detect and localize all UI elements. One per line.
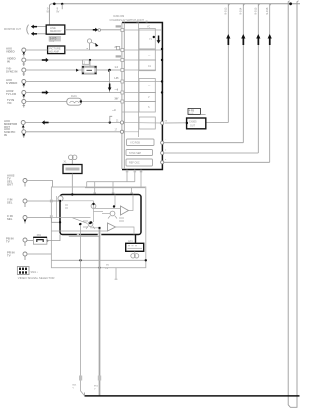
- wire: drop to selector 1: [94, 182, 97, 195]
- svg-text:CXA2061S AV SWITCH CONT: CXA2061S AV SWITCH CONT: [110, 19, 145, 22]
- svg-text:SYNC SEP: SYNC SEP: [129, 152, 141, 155]
- svg-text:TV: TV: [6, 239, 10, 243]
- wire: IC to vertical 4: [161, 159, 270, 164]
- box U902 line memory: [46, 25, 65, 34]
- svg-text:X1: X1: [64, 161, 68, 164]
- IC internal rows: [122, 30, 162, 132]
- wire J9 into selector: [27, 181, 53, 188]
- svg-text:L45: L45: [115, 77, 120, 80]
- svg-text:FB1: FB1: [37, 235, 42, 237]
- IC internal bus: [122, 23, 139, 170]
- IC right pin circle: [161, 120, 168, 124]
- connector J7 aux out: [4, 119, 25, 130]
- wire J1 to IC: [26, 49, 122, 51]
- svg-text:SEL: SEL: [7, 200, 13, 204]
- IC dark arrow down: [157, 36, 161, 44]
- wire J2 to IC with arrow: [26, 58, 122, 62]
- wire: IC right to B9 to vertical 1: [165, 122, 228, 125]
- svg-text:S VIDEO: S VIDEO: [6, 81, 18, 85]
- box B7: [33, 235, 48, 244]
- svg-text:Y1: Y1: [149, 39, 153, 41]
- transistor Q301: [87, 39, 99, 50]
- op-amp U1: [121, 206, 129, 215]
- svg-text:e: e: [165, 150, 167, 152]
- wire: bottom drop thin: [73, 223, 85, 396]
- wire loop to B6: [135, 235, 137, 244]
- wire: drop to selector 2: [112, 182, 115, 195]
- transistor Q2: [58, 196, 63, 201]
- bus drop wire 4: [265, 4, 271, 163]
- junction node on bus: [53, 3, 63, 6]
- svg-text:e: e: [165, 159, 167, 161]
- label plate under U902: [49, 36, 61, 43]
- right edge return wire outer: [288, 1, 298, 408]
- transistor Q5: [110, 211, 115, 216]
- connector J13: [7, 250, 27, 260]
- wire: IC to vertical 2: [161, 139, 244, 144]
- wire J5 to IC with arrow: [26, 90, 122, 94]
- connector J12: [6, 236, 27, 246]
- svg-text:IN: IN: [4, 133, 7, 137]
- wire: U902 to IC301: [65, 29, 122, 31]
- connector J6: [7, 98, 26, 108]
- svg-text:⇦n: ⇦n: [105, 267, 109, 270]
- connector B8 service plug: [17, 267, 37, 275]
- IC bottom wide block 3: [126, 159, 153, 166]
- svg-text:VIDEO SIGNAL SELECTOR: VIDEO SIGNAL SELECTOR: [18, 276, 55, 280]
- box B6 output driver: [126, 241, 144, 251]
- svg-text:DL01: DL01: [71, 95, 77, 98]
- IC bottom wide block 2: [126, 150, 153, 156]
- svg-text:TV LCD: TV LCD: [6, 92, 16, 96]
- wire J4 to IC: [26, 81, 122, 83]
- box comb filter: [48, 46, 65, 54]
- wire J10 to loop: [27, 200, 60, 202]
- bus drop wire 1: [224, 4, 230, 123]
- svg-text:~: ~: [165, 139, 167, 141]
- connector J8: [4, 127, 26, 138]
- IC301 block: [110, 15, 163, 169]
- up arrow on drop 1: [226, 34, 230, 45]
- wire J12 through B7: [27, 235, 60, 241]
- svg-text:YC: YC: [147, 27, 151, 29]
- delay line DL301: [67, 95, 82, 105]
- wire J11 to loop: [27, 218, 59, 223]
- wire: bottom dark bus: [85, 393, 300, 396]
- connector J2: [7, 56, 26, 66]
- svg-text:CN305: CN305: [189, 121, 197, 124]
- svg-text:B01: B01: [73, 385, 78, 387]
- wire J8 to IC: [26, 129, 122, 131]
- wire: top supply bus: [49, 4, 300, 25]
- wire: stub from bus: [47, 4, 63, 14]
- connector J3: [6, 66, 26, 76]
- svg-text:—9: —9: [112, 110, 116, 112]
- connector J1: [6, 46, 26, 56]
- svg-text:V: V: [73, 388, 75, 390]
- wire: rail B under IC: [85, 170, 145, 188]
- label box and stub above FL301: [82, 59, 91, 66]
- svg-text:—: —: [148, 55, 151, 57]
- svg-text:23: 23: [165, 120, 168, 122]
- up arrow on drop 4: [268, 34, 272, 45]
- svg-text:IC301 DM: IC301 DM: [113, 15, 124, 18]
- svg-text:1-4: 1-4: [115, 66, 119, 69]
- svg-text:C1: C1: [148, 66, 152, 68]
- IC sub-block column: [139, 27, 155, 130]
- connector J9: [7, 174, 27, 187]
- svg-text:9-015: 9-015: [254, 7, 258, 14]
- connector J4: [6, 78, 26, 88]
- connector J5: [6, 89, 26, 99]
- transistor Q4: [88, 222, 93, 227]
- svg-text:Y/C: Y/C: [7, 101, 12, 105]
- svg-text:Y/C RGB: Y/C RGB: [130, 142, 140, 145]
- svg-text:Mn: Mn: [106, 264, 110, 266]
- svg-text:TV: TV: [7, 253, 11, 257]
- wire: oscillator stem: [71, 174, 73, 195]
- svg-text:REF OSC: REF OSC: [129, 162, 140, 165]
- svg-text:—: —: [148, 85, 151, 87]
- wire: rail A under IC: [87, 170, 143, 188]
- wire: selector bottom rail: [51, 259, 147, 279]
- selector outer box: [51, 187, 145, 268]
- connector P901 monitor out bracket: [4, 25, 29, 35]
- up arrow on drop 3: [256, 34, 260, 45]
- wire: B1 to bracket upper with left arrow: [31, 25, 46, 29]
- svg-text:4-FB: 4-FB: [189, 109, 195, 112]
- crystal X301: [64, 155, 77, 164]
- svg-text:MONITOR OUT: MONITOR OUT: [4, 28, 21, 31]
- connector J10: [7, 197, 27, 207]
- svg-text:OUT: OUT: [190, 124, 196, 127]
- svg-text:V: V: [94, 389, 96, 391]
- svg-text:9-016: 9-016: [265, 7, 269, 14]
- transistor Q3: [91, 204, 96, 209]
- wire J7 to IC with left arrow: [25, 120, 122, 124]
- junction dot right edge: [289, 2, 292, 5]
- box B9 on line: [186, 108, 206, 128]
- box oscillator module: [63, 165, 82, 174]
- wire: B1 to bracket lower with left arrow: [31, 32, 46, 36]
- svg-text:SEL: SEL: [7, 217, 13, 221]
- selector junction dots: [59, 193, 115, 223]
- wire J13 to selector: [27, 253, 51, 255]
- bus drop wire 3: [254, 4, 260, 153]
- svg-text:9V: 9V: [47, 10, 50, 14]
- svg-text:S601 •: S601 •: [31, 271, 38, 274]
- wire: IC to vertical 3: [161, 150, 259, 155]
- svg-text:SYNC IN: SYNC IN: [6, 69, 17, 73]
- svg-text:MEMORY: MEMORY: [50, 29, 62, 33]
- svg-text:VIDEO: VIDEO: [6, 49, 16, 53]
- svg-text:BV1: BV1: [94, 386, 99, 388]
- svg-text:S: S: [148, 107, 150, 109]
- svg-text:—9: —9: [115, 89, 119, 91]
- svg-text:V: V: [148, 97, 150, 99]
- caption text: [18, 276, 55, 280]
- svg-text:17: 17: [115, 129, 118, 131]
- IC left pin pads: [117, 29, 124, 134]
- wire: bottom drop thick: [94, 227, 101, 396]
- arrow on U902-IC wire: [93, 28, 101, 32]
- IC junction dots: [108, 36, 163, 94]
- svg-text:HD AMP: HD AMP: [49, 50, 59, 54]
- svg-text:9-014: 9-014: [239, 7, 243, 14]
- highlighted signal loop: [60, 195, 141, 235]
- svg-text:IN: IN: [7, 59, 10, 63]
- svg-text:39Y: 39Y: [115, 98, 120, 100]
- IC bottom wide block 1: [127, 139, 155, 146]
- svg-text:9-013: 9-013: [224, 7, 228, 14]
- filter FL301 on J3 line: [82, 66, 97, 74]
- connector J11: [7, 214, 27, 224]
- bus drop wire 2: [239, 4, 245, 143]
- wire J6 to delay line to IC: [26, 101, 122, 103]
- svg-text:GY1: GY1: [128, 241, 133, 243]
- op-amp U2: [108, 223, 116, 231]
- IC pin number labels left: [112, 25, 121, 112]
- CRT symbol below B6: [131, 251, 139, 258]
- node stub on J7 wire: [109, 116, 120, 123]
- svg-text:OUT: OUT: [7, 183, 13, 187]
- up arrow on drop 2: [241, 34, 245, 45]
- wire J3 to IC: [26, 69, 122, 72]
- svg-text:9V: 9V: [56, 10, 59, 14]
- selector internal wires: [50, 195, 134, 237]
- wire: drop to selector 3: [130, 188, 133, 195]
